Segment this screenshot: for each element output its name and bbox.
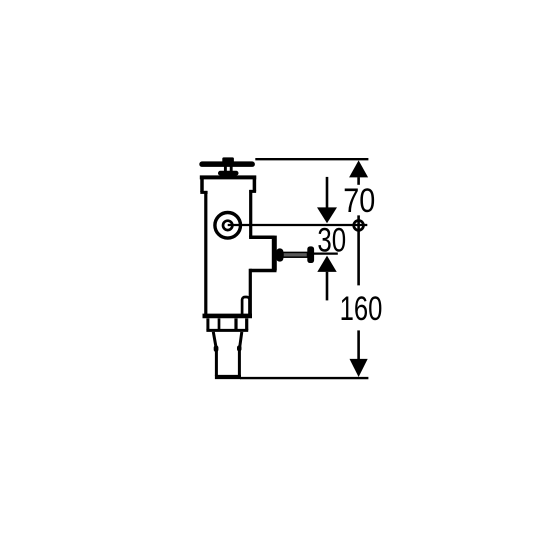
cap right edge [253, 176, 257, 192]
push rod [283, 252, 308, 257]
svg-text:160: 160 [340, 290, 383, 328]
nut facet line 2 [234, 318, 237, 330]
baseline extension line [240, 377, 368, 379]
tailpiece right edge [239, 332, 241, 376]
dim 30 up arrow shaft [326, 272, 329, 301]
cap bottom left stub [200, 191, 207, 194]
dim 30 down arrow shaft [326, 177, 329, 208]
dim 30 up arrowhead [317, 256, 336, 272]
center line to datum [228, 224, 368, 226]
dim 160 lower shaft [357, 330, 360, 359]
protrusion right edge [272, 236, 277, 271]
nut facet line 1 [218, 318, 221, 330]
nut right edge [245, 318, 248, 330]
nut left edge [206, 318, 209, 330]
tailpiece bottom [215, 375, 241, 379]
body lower right edge [249, 269, 252, 316]
cap left edge [200, 176, 204, 192]
body left edge [204, 191, 207, 316]
dim 160 down arrowhead [350, 359, 368, 377]
rod extension line [314, 253, 338, 255]
pilot port outer circle [215, 213, 241, 239]
protrusion bottom [249, 269, 276, 273]
dim 70 upper shaft [357, 177, 360, 185]
tailpiece left nub [214, 345, 219, 352]
lower right stub [242, 297, 249, 316]
tailpiece right nub [237, 345, 242, 351]
svg-text:70: 70 [343, 182, 375, 220]
cap top edge [200, 175, 256, 179]
pilot port inner circle [223, 221, 232, 230]
body right upper edge [249, 190, 252, 238]
tailpiece left edge [213, 332, 216, 376]
nut bottom edge [206, 329, 248, 332]
dim line segment through datum [357, 215, 360, 285]
handle bar [199, 161, 255, 167]
handle stem flange [218, 171, 239, 176]
cap bottom right stub [249, 190, 256, 193]
dim 70 up arrowhead [349, 160, 368, 177]
dim 30 down arrowhead [317, 207, 337, 223]
rod end flange [307, 246, 314, 263]
gland nub [276, 248, 283, 261]
handle stem [225, 167, 231, 172]
body bottom line [203, 314, 253, 319]
svg-text:30: 30 [317, 221, 346, 259]
datum circle [354, 221, 364, 231]
handle knob [222, 157, 234, 162]
top extension line [255, 158, 368, 160]
protrusion step top [249, 236, 275, 240]
